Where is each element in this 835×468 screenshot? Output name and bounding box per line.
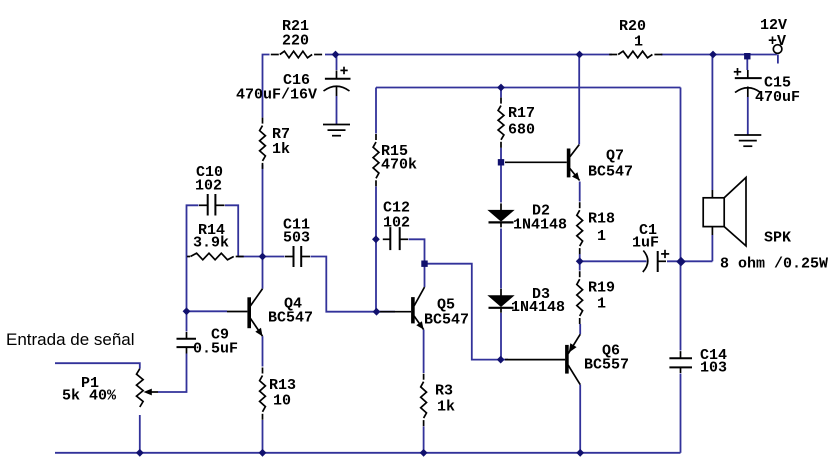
svg-text:470uF: 470uF	[755, 89, 800, 106]
capacitor C11 503	[285, 246, 310, 267]
label Q5 type	[424, 312, 469, 329]
svg-text:5k 40%: 5k 40%	[62, 388, 117, 405]
svg-text:103: 103	[700, 360, 727, 377]
svg-text:1k: 1k	[437, 399, 455, 416]
capacitor C12 102	[383, 227, 408, 250]
label R17	[508, 105, 535, 122]
svg-text:220: 220	[282, 33, 309, 50]
label C9	[211, 327, 229, 344]
svg-text:R3: R3	[435, 383, 453, 400]
wire Q5 collector node to D3 branch corner	[425, 264, 501, 360]
label C10	[196, 164, 223, 181]
svg-text:680: 680	[508, 122, 535, 139]
label SPK	[764, 229, 791, 246]
svg-text:1: 1	[597, 296, 606, 313]
label D3	[532, 286, 550, 303]
transistor Q7 BC547	[569, 145, 580, 181]
wire speaker bottom stub	[711, 235, 713, 261]
label C14 value	[700, 360, 727, 377]
junction rail-C15	[744, 53, 750, 59]
junction rail-Q6	[576, 449, 584, 457]
junction R17-D2-Q7base	[498, 159, 504, 165]
label C1 value	[632, 235, 659, 252]
label R21 value	[282, 33, 309, 50]
label C1	[639, 222, 657, 239]
label D2	[532, 203, 550, 220]
svg-text:1uF: 1uF	[632, 235, 659, 252]
wire R19 from mid-out node	[579, 261, 581, 270]
svg-text:+V: +V	[768, 33, 786, 50]
svg-text:1: 1	[597, 228, 606, 245]
wire C11 jog to Q5 base node	[311, 257, 396, 312]
label P1	[81, 375, 99, 392]
wire C15 bottom to ground	[747, 97, 749, 135]
wire Q6 base lead	[505, 359, 565, 361]
label R19	[588, 280, 615, 297]
wire Q4 base from C9 node	[187, 310, 228, 312]
resistor R14 3.9k	[187, 253, 244, 260]
speaker SPK	[703, 178, 746, 246]
wire Q5 collector up	[424, 264, 426, 287]
wire D3 to node	[500, 313, 502, 360]
wire C14 bottom to rail corner	[680, 374, 682, 453]
svg-text:470k: 470k	[381, 157, 417, 174]
wire Q7 emitter to R18	[579, 182, 581, 202]
label R20 value	[634, 34, 643, 51]
wire C9 bottom to wiper	[158, 354, 187, 393]
resistor R3 1k	[421, 374, 427, 426]
junction bus-R17	[497, 84, 505, 92]
label D3 type	[511, 299, 565, 316]
wire D2 top lead from node	[500, 162, 502, 202]
capacitor C10 102	[199, 194, 225, 216]
svg-text:1N4148: 1N4148	[511, 299, 565, 316]
capacitor C9 0.5uF	[177, 332, 197, 354]
label R14 value	[193, 235, 229, 252]
junction rail-R13	[259, 449, 267, 457]
label C10 value	[195, 178, 222, 195]
label R19 value	[597, 296, 606, 313]
junction R15-C12	[372, 235, 380, 243]
wire Q5 emitter to R3	[423, 330, 425, 374]
wire Q7 base lead	[505, 161, 567, 163]
label R3	[435, 383, 453, 400]
transistor Q5 BC547	[413, 287, 425, 329]
junction rail-C16	[332, 51, 340, 59]
wire mid node down to Q4 collector	[262, 257, 264, 289]
label C16 value	[236, 87, 317, 104]
wire Q6 base from node	[501, 359, 508, 361]
ground below C16	[323, 125, 350, 136]
wire C10 loop right	[225, 205, 238, 256]
label C11	[283, 216, 310, 233]
junction mid node R14-C11	[259, 253, 267, 261]
ground below C15	[734, 135, 761, 146]
resistor R13 10	[260, 368, 266, 420]
transistor Q4 BC547	[249, 289, 262, 336]
junction C1-speaker-C14	[676, 257, 686, 267]
wire R21 left lead corner down to R7	[263, 55, 270, 118]
terminal 12V +V	[773, 45, 782, 54]
svg-text:BC557: BC557	[584, 357, 629, 374]
wire P1 bottom to rail	[139, 415, 141, 453]
junction node Q5 base	[373, 308, 381, 316]
svg-text:SPK: SPK	[764, 229, 791, 246]
svg-text:12V: 12V	[760, 17, 787, 34]
wire R17 top lead	[500, 88, 502, 98]
label C16	[283, 72, 310, 89]
wire Q4 base lead	[227, 311, 247, 313]
svg-text:Entrada de señal: Entrada de señal	[6, 330, 135, 349]
label Q7	[606, 148, 624, 165]
svg-text:102: 102	[195, 178, 222, 195]
resistor R7 1k	[260, 118, 266, 169]
label R17 value	[508, 122, 535, 139]
wire 12V terminal stub	[777, 55, 779, 64]
svg-text:0.5uF: 0.5uF	[193, 341, 238, 358]
label D2 type	[513, 216, 567, 233]
label Q6	[602, 342, 620, 359]
label R21	[282, 18, 309, 35]
wire C12 right lead corner to Q5 collector node	[409, 239, 425, 263]
resistor R18 1	[577, 202, 583, 254]
label R18	[588, 211, 615, 228]
label input label	[6, 330, 135, 349]
wire C16 bottom to ground	[336, 96, 338, 125]
wire top rail left segment	[325, 54, 612, 56]
junction R18-R19-C1	[576, 257, 584, 265]
wire C16 top lead	[336, 55, 338, 71]
resistor R21 220	[271, 51, 322, 58]
wire mid-out node to C1	[580, 260, 647, 262]
wire Q5 base lead	[378, 311, 411, 313]
label R7	[272, 126, 290, 143]
junction D3-Q6base	[497, 356, 505, 364]
label R14	[198, 222, 225, 239]
wire R15 top lead	[375, 88, 377, 134]
svg-text:3.9k: 3.9k	[193, 235, 229, 252]
svg-text:1: 1	[634, 34, 643, 51]
svg-text:8 ohm /0.25W: 8 ohm /0.25W	[720, 255, 828, 272]
svg-text:1N4148: 1N4148	[513, 216, 567, 233]
diode D3 1N4148	[489, 289, 514, 313]
label R13	[269, 377, 296, 394]
label Q7 type	[588, 163, 633, 180]
svg-text:1k: 1k	[272, 141, 290, 158]
wire C1 to speaker node	[667, 260, 712, 262]
wire input line	[55, 363, 140, 369]
junction node Q4 base C9	[183, 307, 191, 315]
wire bottom rail	[55, 452, 681, 454]
label C15 value	[755, 89, 800, 106]
label C14	[700, 347, 727, 364]
wire C15 top lead	[746, 55, 748, 71]
svg-text:BC547: BC547	[268, 310, 313, 327]
wire Q4 emitter to R13	[262, 336, 264, 366]
label Q4	[284, 296, 302, 313]
label Q5	[437, 297, 455, 314]
capacitor C1 1uF	[643, 250, 669, 272]
label SPK value	[720, 255, 828, 272]
svg-text:102: 102	[383, 215, 410, 232]
label R13 value	[273, 393, 291, 410]
junction rail-R3	[420, 449, 428, 457]
label R7 value	[272, 141, 290, 158]
svg-text:R18: R18	[588, 211, 615, 228]
wire D2 to D3	[500, 229, 502, 289]
junction rail-P1	[136, 449, 144, 457]
svg-text:R17: R17	[508, 105, 535, 122]
svg-text:503: 503	[283, 230, 310, 247]
svg-text:470uF/16V: 470uF/16V	[236, 87, 317, 104]
label C9 value	[193, 341, 238, 358]
junction C12-Q5collector	[421, 261, 427, 267]
wire top rail right segment	[661, 54, 777, 56]
label R20	[619, 18, 646, 35]
wire mid horizontal bus y=87	[376, 87, 681, 89]
label +V	[768, 33, 786, 50]
label Q4 type	[268, 310, 313, 327]
resistor R19 1	[577, 271, 583, 324]
label C12	[383, 200, 410, 217]
label R3 value	[437, 399, 455, 416]
wire R19 to Q6 emitter	[579, 324, 581, 334]
resistor R15 470k	[373, 134, 379, 186]
label R15	[381, 143, 408, 160]
label 12V	[760, 17, 787, 34]
svg-text:R13: R13	[269, 377, 296, 394]
label R15 value	[381, 157, 417, 174]
wire Q6 collector to bottom rail	[579, 385, 581, 453]
resistor R20 1	[609, 51, 662, 58]
wire Q7 collector vertical	[578, 55, 580, 145]
junction rail-Q7	[576, 51, 584, 59]
diode D2 1N4148	[489, 203, 514, 227]
capacitor C16 470uF/16V	[324, 67, 351, 96]
wire R7 to mid node	[262, 165, 264, 257]
wire R17 bottom to Q7 base node	[500, 148, 502, 163]
wire C14 branch vertical	[680, 88, 682, 351]
label R18 value	[597, 228, 606, 245]
wire speaker top vertical	[711, 55, 713, 191]
potentiometer P1	[137, 369, 159, 407]
label Q6 type	[584, 357, 629, 374]
wire C10 loop left	[187, 205, 199, 311]
label C15	[764, 75, 791, 92]
label C11 value	[283, 230, 310, 247]
svg-text:R19: R19	[588, 280, 615, 297]
wire R18 to mid-out node	[579, 254, 581, 261]
label C12 value	[383, 215, 410, 232]
svg-text:R20: R20	[619, 18, 646, 35]
svg-text:Q7: Q7	[606, 148, 624, 165]
wire R3 to bottom rail	[423, 426, 425, 453]
wire R15 bottom to C12 node to Q5 base node	[375, 187, 377, 312]
svg-text:BC547: BC547	[588, 163, 633, 180]
resistor R17 680	[498, 98, 504, 148]
capacitor C15 470uF	[734, 68, 762, 97]
label P1 value	[62, 388, 117, 405]
svg-text:10: 10	[273, 393, 291, 410]
wire R13 to bottom rail	[262, 420, 264, 453]
svg-text:BC547: BC547	[424, 312, 469, 329]
junction rail-speaker	[709, 51, 717, 59]
transistor Q6 BC557	[567, 334, 580, 384]
wire R14 right to mid node	[238, 256, 262, 258]
capacitor C14 103	[669, 351, 692, 373]
wire C9 top lead	[186, 311, 188, 331]
wire mid node to C11	[263, 256, 285, 258]
